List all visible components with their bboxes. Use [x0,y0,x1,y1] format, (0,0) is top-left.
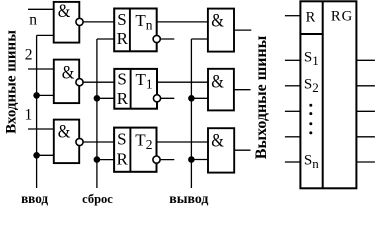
svg-text:T2: T2 [135,131,152,152]
wire G6 output stub [234,149,250,151]
svg-text:&: & [211,131,224,152]
svg-text:S: S [117,69,126,88]
wire ввод vertical bus [36,35,38,188]
svg-text:n: n [29,11,37,28]
AND gate G3 [54,120,79,164]
svg-text:S: S [117,129,126,148]
svg-text:ввод: ввод [21,191,48,206]
register RG box [300,1,356,188]
wire RG output 3 [356,110,375,112]
junction сброс / FF3 R [94,156,101,163]
svg-text:S: S [117,10,126,29]
wire ввод to G1 pin 2 [37,34,54,36]
wire ввод to G3 pin 2 [37,154,54,156]
inverter bubble G1 [76,18,83,25]
wire G5 output stub [234,89,251,91]
wire FF3 Q to G6 [157,141,209,143]
wire RG input S1 [285,59,301,61]
junction вывод / G6 pin 2 [188,156,195,163]
svg-text:&: & [211,71,224,92]
flip-flop FF1 Tn [114,9,157,52]
svg-text:Tn: Tn [135,11,152,32]
wire RG output n [356,161,375,163]
AND gate G5 [208,69,234,111]
svg-text:&: & [62,62,75,83]
wire RG input Sn [285,161,301,163]
svg-text:сброс: сброс [82,192,113,206]
inverter bubble FF2 Q-bar [153,95,160,102]
svg-text:T1: T1 [136,70,153,91]
svg-text:R: R [117,150,129,169]
inverter bubble FF1 Q-bar [153,35,160,42]
svg-text:&: & [211,11,224,32]
svg-text:1: 1 [25,106,33,123]
wire FF2 Q to G5 [157,81,208,83]
wire input line n [28,8,54,10]
svg-text:&: & [58,1,71,22]
AND gate G2 [54,60,79,104]
wire RG output 2 [356,85,375,87]
AND gate G1 [54,1,80,43]
AND gate G4 [208,9,234,52]
junction ввод / G3 pin 2 [33,152,40,159]
wire вывод to G4 pin 2 [191,38,208,40]
junction вывод / G5 pin 2 [188,95,195,102]
wire G3 out to FF3 S [79,141,114,143]
wire ввод to G2 pin 2 [37,94,54,96]
svg-text:R: R [117,29,129,48]
wire G1 out to FF1 S [79,21,114,23]
junction сброс / FF2 R [94,95,101,102]
wire RG input row 3 [285,110,301,112]
svg-text:Выходные шины: Выходные шины [253,35,270,159]
wire сброс to FF2 R [97,97,114,99]
flip-flop FF2 T1 [114,69,157,109]
ellipsis dots in RG [309,104,312,135]
wire FF2 Q-bar stub [157,97,174,99]
wire input line 1 [28,128,54,130]
svg-text:2: 2 [25,47,33,64]
svg-text:&: & [58,122,71,143]
svg-text:Входные шины: Входные шины [3,30,19,134]
wire вывод vertical bus [190,39,192,188]
wire сброс to FF3 R [97,159,114,161]
wire сброс to FF1 R [97,38,114,40]
svg-text:R: R [306,9,316,25]
junction ввод / G2 pin 2 [33,92,40,99]
wire вывод to G6 pin 2 [191,159,208,161]
inverter bubble FF3 Q-bar [153,156,160,163]
wire input line 2 [28,68,54,70]
svg-text:S2: S2 [304,77,319,96]
wire RG input R [285,15,301,17]
wire G2 out to FF2 S [79,81,114,83]
wire FF1 Q to G4 [157,21,208,23]
wire RG input row 4 [285,136,301,138]
svg-text:вывод: вывод [169,191,208,206]
wire вывод to G5 pin 2 [191,97,208,99]
wire сброс vertical bus [96,39,98,188]
wire RG input S2 [285,85,301,87]
inverter bubble G3 [76,138,83,145]
wire FF1 Q-bar stub [157,38,175,40]
wire RG output 1 [356,59,375,61]
svg-text:S1: S1 [304,50,319,69]
wire RG output 4 [356,136,375,138]
flip-flop FF3 T2 [114,128,156,172]
svg-text:RG: RG [331,9,353,25]
inverter bubble G2 [76,79,83,86]
wire FF3 Q-bar stub [157,159,175,161]
svg-text:R: R [117,89,129,108]
AND gate G6 [208,128,234,172]
wire G4 output stub [234,29,251,31]
svg-text:Sn: Sn [304,152,319,171]
